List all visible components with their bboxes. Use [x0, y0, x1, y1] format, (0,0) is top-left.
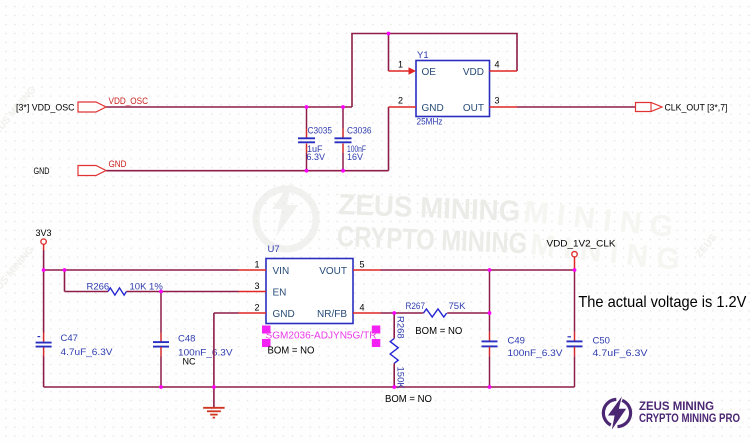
svg-text:ZEUS MINING: ZEUS MINING: [639, 401, 714, 413]
svg-text:SGM2036-ADJYN5G/TR: SGM2036-ADJYN5G/TR: [266, 330, 377, 341]
svg-text:4: 4: [360, 302, 365, 312]
svg-text:GND: GND: [109, 159, 127, 170]
svg-text:4.7uF_6.3V: 4.7uF_6.3V: [61, 347, 114, 358]
svg-text:[3*] VDD_OSC: [3*] VDD_OSC: [16, 103, 75, 113]
svg-text:C3035: C3035: [308, 126, 333, 136]
svg-text:3: 3: [495, 96, 500, 106]
svg-text:2: 2: [254, 302, 259, 312]
wire EN branch drop: [64, 270, 66, 292]
Y1 pin 3 OUT: [463, 96, 517, 114]
svg-text:BOM = NO: BOM = NO: [385, 394, 432, 405]
svg-text:25MHz: 25MHz: [417, 117, 443, 128]
svg-text:GND: GND: [273, 309, 295, 320]
zeus mining logo: [603, 397, 740, 430]
wire drop to Y1 pin 4: [516, 34, 518, 72]
svg-text:1: 1: [254, 259, 259, 269]
resistor R267: [406, 301, 467, 317]
svg-text:NC: NC: [183, 356, 196, 366]
wire EN run left: [65, 291, 109, 293]
U7 pin 3 EN: [239, 281, 287, 299]
junction VDD_OSC/C3036: [341, 105, 345, 109]
svg-text:C47: C47: [61, 333, 78, 344]
svg-text:100nF_6.3V: 100nF_6.3V: [508, 348, 564, 359]
wire ground drop: [213, 313, 215, 407]
wire 3V3 drop upper: [43, 250, 45, 333]
svg-text:3V3: 3V3: [36, 228, 52, 238]
U7 part number selection handles: [262, 326, 380, 348]
svg-text:C49: C49: [508, 336, 525, 347]
svg-text:4: 4: [495, 60, 500, 70]
wire EN run right: [126, 291, 238, 293]
svg-text:75K: 75K: [449, 301, 467, 312]
svg-text:CRYPTO MINING PRO: CRYPTO MINING PRO: [639, 413, 740, 425]
svg-text:R267: R267: [406, 301, 426, 312]
wire drop to Y1 pin 1: [388, 34, 390, 72]
svg-text:C3036: C3036: [347, 126, 372, 136]
svg-text:BOM = NO: BOM = NO: [268, 346, 315, 357]
junction 3V3/VIN: [42, 268, 46, 272]
ground symbol: [203, 408, 224, 418]
port GND: [34, 166, 107, 177]
junction VOUT/C49: [488, 268, 492, 272]
svg-text:NR/FB: NR/FB: [317, 309, 347, 320]
svg-text:6.3V: 6.3V: [307, 152, 326, 162]
svg-text:R266: R266: [87, 281, 110, 292]
regulator U7: [266, 244, 353, 324]
svg-text:C50: C50: [593, 336, 610, 347]
wire GND horizontal: [106, 170, 389, 172]
port CLK_OUT: [636, 103, 728, 113]
watermark center logo circle: [256, 181, 316, 249]
svg-text:1: 1: [398, 60, 403, 70]
power port VDD_1V2_CLK: [547, 238, 616, 270]
U7 pin 1 VIN: [239, 259, 290, 277]
U7 pin 5 VOUT: [319, 259, 380, 277]
wire NR/FB run right: [447, 312, 489, 314]
svg-text:3: 3: [254, 281, 259, 291]
svg-text:16V: 16V: [347, 152, 363, 162]
capacitor C47: [36, 333, 114, 358]
svg-text:VOUT: VOUT: [319, 266, 347, 277]
svg-text:OE: OE: [422, 67, 437, 78]
junction EN branch: [63, 268, 67, 272]
watermark small diagonal left edge: [0, 84, 720, 301]
wire VIN run: [44, 269, 239, 271]
wire top run: [351, 33, 518, 35]
wire U7 GND to ground: [214, 312, 239, 314]
wire 3V3 drop lower: [43, 347, 45, 357]
oscillator Y1: [416, 50, 490, 128]
capacitor C3036: [335, 107, 372, 171]
svg-text:VDD_1V2_CLK: VDD_1V2_CLK: [547, 238, 616, 248]
junction rail/ground: [212, 385, 216, 389]
power port 3V3: [36, 228, 52, 250]
svg-text:The actual voltage is 1.2V: The actual voltage is 1.2V: [578, 294, 746, 311]
junction NR-FB/R268: [392, 311, 396, 315]
Y1 pin 1 OE: [389, 60, 437, 78]
junction GND/C3035: [305, 169, 309, 173]
watermark text tile 2: [519, 195, 685, 276]
svg-text:GND: GND: [34, 166, 50, 176]
capacitor C49: [482, 270, 564, 387]
junction rail/R268: [392, 385, 396, 389]
junction EN/C48: [159, 290, 163, 294]
svg-text:4.7uF_6.3V: 4.7uF_6.3V: [593, 348, 649, 359]
capacitor C50: [567, 270, 649, 387]
resistor R268: [390, 313, 406, 389]
U7 pin 2 GND: [239, 302, 295, 320]
svg-text:EN: EN: [273, 288, 287, 299]
svg-text:C48: C48: [178, 333, 195, 344]
wire VOUT run: [381, 269, 575, 271]
svg-text:R268: R268: [395, 316, 406, 339]
junction GND/C3036: [341, 169, 345, 173]
junction VOUT/VDD_1V2_CLK: [573, 268, 577, 272]
wire VDD_OSC horizontal: [106, 106, 352, 108]
wire bottom rail: [44, 386, 575, 388]
svg-text:10K 1%: 10K 1%: [130, 281, 164, 292]
svg-text:150K: 150K: [395, 367, 406, 390]
svg-text:CLK_OUT [3*,7]: CLK_OUT [3*,7]: [665, 103, 728, 113]
junction rail/C49: [488, 385, 492, 389]
capacitor C3035: [298, 107, 332, 171]
svg-text:VDD: VDD: [463, 67, 484, 78]
Y1 pin 4 VDD: [463, 60, 517, 78]
svg-text:5: 5: [360, 259, 365, 269]
U7 pin 4 NR/FB: [317, 302, 381, 320]
junction top run / pin1 drop: [387, 32, 391, 36]
junction VDD_OSC/C3035: [305, 105, 309, 109]
svg-text:GND: GND: [422, 103, 444, 114]
Y1 pin 2 GND: [389, 96, 444, 114]
svg-text:VIN: VIN: [273, 266, 290, 277]
wire VDD_OSC riser: [351, 34, 353, 108]
svg-text:OUT: OUT: [463, 103, 484, 114]
wire GND riser to Y1 pin 2: [388, 107, 390, 171]
port VDD_OSC: [16, 102, 106, 113]
junction rail/C48: [159, 385, 163, 389]
wire Y1 OUT to CLK_OUT: [517, 106, 636, 108]
capacitor C48: [153, 292, 233, 388]
svg-text:BOM = NO: BOM = NO: [415, 326, 462, 337]
junction NR-FB/C49: [488, 311, 492, 315]
resistor R266: [87, 281, 164, 295]
svg-text:2: 2: [398, 96, 403, 106]
svg-text:VDD_OSC: VDD_OSC: [109, 96, 149, 107]
wire NR/FB run left: [381, 312, 424, 314]
svg-text:Y1: Y1: [417, 50, 429, 61]
svg-text:U7: U7: [268, 244, 280, 255]
watermark text tile 1: [337, 189, 529, 260]
